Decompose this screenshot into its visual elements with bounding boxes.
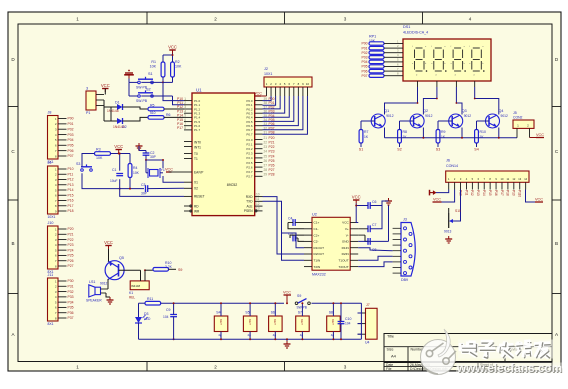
svg-text:EA/VP: EA/VP [194,170,203,174]
wire reset cluster [82,154,95,167]
svg-text:3: 3 [344,17,347,22]
svg-text:P1.7: P1.7 [194,128,201,132]
wire sw1 row [128,79,130,83]
svg-text:Q1: Q1 [384,109,389,113]
svg-text:File: File [386,367,392,371]
svg-text:P110: P110 [518,190,522,197]
svg-text:S10: S10 [455,209,461,213]
wire base R10 [477,120,490,122]
svg-text:S1: S1 [359,148,363,152]
resistor R3 [95,152,111,156]
svg-text:P07: P07 [361,74,367,78]
svg-text:P14: P14 [68,188,74,192]
led D3 [135,317,142,323]
wire osc [138,146,140,151]
connector J5 [513,120,534,128]
svg-text:8X1: 8X1 [48,322,54,326]
svg-text:P03: P03 [361,56,367,60]
resistor R10 base [475,130,479,144]
diode D2 [117,118,123,124]
svg-text:P20: P20 [269,136,275,140]
title block [384,334,552,371]
svg-text:P2.6: P2.6 [246,165,253,169]
transistor Q4 [486,114,500,128]
svg-text:P05: P05 [361,65,367,69]
key switch S5 [243,316,257,332]
svg-text:PSEN: PSEN [244,209,253,213]
svg-text:1: 1 [76,17,79,22]
switch S1 [138,81,141,84]
wire u2 gnd net [358,240,388,242]
svg-text:P2.5: P2.5 [246,161,253,165]
svg-text:P06: P06 [68,149,74,153]
svg-text:S9: S9 [297,294,301,298]
svg-text:Date: Date [386,363,393,367]
svg-text:C1-: C1- [314,227,319,231]
svg-text:P2.3: P2.3 [246,152,253,156]
wire key rail top [161,302,284,304]
vcc buzzer [105,245,111,247]
svg-text:4: 4 [469,17,472,22]
svg-text:10K: 10K [150,65,157,69]
wire base R8 [400,120,414,122]
svg-text:9012: 9012 [464,114,472,118]
svg-text:10X1: 10X1 [48,215,56,219]
wire sw rows to mcu [163,82,184,100]
vcc top [169,49,175,51]
svg-text:30P: 30P [150,155,157,159]
svg-text:3: 3 [86,87,88,91]
svg-text:Q3: Q3 [462,109,467,113]
svg-text:P18: P18 [506,190,510,196]
svg-text:Y1: Y1 [161,168,165,172]
svg-text:P01: P01 [361,46,367,50]
svg-text:2: 2 [214,365,217,370]
svg-text:MAX232: MAX232 [312,273,326,277]
svg-text:P21: P21 [269,141,275,145]
display bottom pins [417,81,419,87]
svg-text:P1.2: P1.2 [194,107,201,111]
svg-text:10: 10 [256,192,260,196]
svg-text:P2.1: P2.1 [246,142,253,146]
svg-text:2: 2 [214,17,217,22]
svg-text:29: 29 [264,173,268,177]
svg-text:P16: P16 [68,199,74,203]
svg-text:VCC: VCC [536,133,544,137]
transistor Q2 [410,114,424,128]
svg-text:R9: R9 [441,130,446,134]
svg-text:P21: P21 [68,232,74,236]
svg-text:R8: R8 [403,130,408,134]
svg-text:A4: A4 [391,354,397,359]
resistor R11 [145,301,161,305]
wire u2 to db9 [358,248,392,251]
ic U2 box [312,217,350,270]
svg-text:SW-PB: SW-PB [297,305,307,309]
wire display to transistors [385,87,418,115]
svg-text:S3: S3 [76,162,80,166]
svg-text:Q4: Q4 [499,109,504,113]
svg-text:10K: 10K [175,65,182,69]
display left pins [396,43,404,45]
svg-text:C2-: C2- [314,240,319,244]
svg-text:P25: P25 [68,254,74,258]
svg-text:S3: S3 [436,148,440,152]
svg-text:P0.3: P0.3 [246,112,253,116]
svg-text:RP1: RP1 [369,35,376,39]
svg-text:9013: 9013 [444,230,452,234]
mcu U1 right pins [255,100,263,102]
vcc J1 [102,88,108,90]
svg-text:C10: C10 [345,317,351,321]
svg-text:J3: J3 [403,218,407,222]
key switch S8 [327,316,341,332]
svg-text:1: 1 [184,97,186,101]
svg-text:S5: S5 [245,311,249,315]
svg-text:P04: P04 [68,138,74,142]
svg-text:P16: P16 [177,122,183,126]
svg-text:P1.3: P1.3 [194,112,201,116]
wire sw2 row [128,82,130,96]
svg-text:30P: 30P [141,192,148,196]
svg-text:U2: U2 [312,213,317,217]
connector J11 [48,278,59,321]
resistor R5 [148,107,164,111]
svg-text:V+: V+ [345,227,349,231]
svg-text:P15: P15 [488,190,492,196]
svg-text:104: 104 [345,322,351,326]
svg-text:5: 5 [184,114,186,118]
ground key row [286,341,288,344]
svg-text:VCC: VCC [165,168,173,172]
svg-text:S1: S1 [148,72,153,76]
svg-text:Title: Title [387,335,394,339]
svg-text:R11: R11 [147,297,153,301]
svg-text:ALE: ALE [246,204,252,208]
svg-text:D3: D3 [144,312,149,316]
svg-text:P12: P12 [68,178,74,182]
svg-text:P26: P26 [68,259,74,263]
svg-text:P10: P10 [68,167,74,171]
connector J8 [48,116,59,160]
diode D1 [117,104,123,110]
svg-text:9012: 9012 [501,114,509,118]
svg-text:R1: R1 [151,60,156,64]
svg-text:9012: 9012 [425,114,433,118]
svg-text:P22: P22 [269,145,275,149]
svg-text:P36: P36 [68,311,74,315]
svg-text:104: 104 [163,315,169,319]
resistor R10 [153,268,169,272]
svg-text:P2.7: P2.7 [246,175,253,179]
svg-text:4LEDDIS-CA_4: 4LEDDIS-CA_4 [403,31,428,35]
svg-text:WR: WR [194,209,200,213]
svg-text:10: 10 [306,82,310,86]
svg-text:U1: U1 [196,88,202,93]
svg-text:RD: RD [194,204,199,208]
mcu U1 left pins [184,100,192,102]
svg-text:89C52: 89C52 [227,183,238,187]
svg-text:R2IN: R2IN [342,252,349,256]
svg-text:P2.4: P2.4 [246,156,253,160]
svg-text:P17: P17 [68,204,74,208]
svg-text:S2: S2 [146,88,151,92]
svg-text:S9: S9 [178,268,182,272]
ground con14 [448,236,450,239]
svg-text:VCC: VCC [168,45,177,50]
svg-text:R1OUT: R1OUT [314,246,325,250]
switch S2 [138,95,141,98]
svg-text:26: 26 [264,159,268,163]
key switch S7 [296,316,310,332]
svg-text:9012: 9012 [100,282,108,286]
svg-text:8: 8 [184,126,186,130]
svg-text:P1.5: P1.5 [194,120,201,124]
svg-text:P13: P13 [177,109,183,113]
svg-text:P11: P11 [68,172,74,176]
cap C7 [367,225,369,232]
svg-text:IN4148: IN4148 [131,284,140,288]
svg-text:10uF: 10uF [110,179,118,183]
svg-text:R10: R10 [480,130,486,134]
wire q5 base [119,269,141,271]
svg-text:P27: P27 [269,168,275,172]
svg-text:P34: P34 [68,300,74,304]
svg-text:P02: P02 [361,51,367,55]
svg-text:P22: P22 [68,238,74,242]
svg-text:DB9: DB9 [401,278,408,282]
svg-text:J9: J9 [48,161,52,165]
svg-text:P01: P01 [269,101,275,105]
svg-text:P0.1: P0.1 [246,103,253,107]
svg-text:VCC: VCC [101,83,110,88]
wire diodes [103,100,105,107]
svg-text:J5: J5 [513,111,517,115]
svg-text:T1OUT: T1OUT [339,259,349,263]
svg-text:VCC: VCC [104,240,113,245]
svg-text:23: 23 [264,145,268,149]
transistor Q1 [371,114,385,128]
svg-text:RXD: RXD [246,195,253,199]
svg-text:R7: R7 [364,130,369,134]
svg-text:C7: C7 [372,223,377,227]
svg-text:25: 25 [264,154,268,158]
svg-text:P35: P35 [68,306,74,310]
ground osc [138,143,140,146]
switch S9 toggle [295,302,298,305]
connector J10 [48,226,59,269]
svg-text:24: 24 [264,150,268,154]
svg-text:P23: P23 [68,243,74,247]
svg-text:P14: P14 [482,190,486,196]
svg-text:P19: P19 [512,190,516,196]
cap C5 [292,235,294,242]
connector J1 [86,91,96,110]
key switch S6 [269,316,283,332]
svg-text:KEY: KEY [219,319,223,325]
svg-text:T1IN: T1IN [314,259,321,263]
svg-text:Q5: Q5 [119,256,124,260]
ground arrow [433,190,437,195]
svg-text:1N4148: 1N4148 [107,109,119,113]
svg-text:P16: P16 [494,190,498,196]
header J2 pins [266,87,268,96]
svg-text:9012: 9012 [386,114,394,118]
svg-text:510: 510 [150,111,156,115]
wire res to mcu [164,108,184,110]
svg-text:P27: P27 [68,264,74,268]
svg-text:P1.0: P1.0 [194,99,201,103]
cap C3 [145,185,147,192]
svg-text:Q2: Q2 [423,109,428,113]
connector J6 pins [448,182,450,189]
svg-text:KEY: KEY [331,319,335,325]
svg-text:B: B [11,241,14,246]
svg-text:C4: C4 [288,217,293,221]
svg-text:P26: P26 [269,164,275,168]
wire led [139,302,146,304]
svg-text:P13: P13 [68,183,74,187]
svg-text:C2: C2 [150,151,155,155]
svg-text:P24: P24 [68,248,74,252]
svg-text:P32: P32 [68,290,74,294]
svg-text:S2: S2 [397,148,401,152]
svg-text:21: 21 [264,136,268,140]
cap C8 [367,238,369,245]
cap C9 [170,314,177,316]
svg-text:www.elecfans.com: www.elecfans.com [456,361,562,375]
cap C6 [367,202,369,209]
svg-text:6: 6 [184,118,186,122]
svg-text:27: 27 [264,164,268,168]
svg-text:RESET: RESET [194,195,205,199]
connector J6 CON14 [446,171,529,182]
transistor Q6 small [448,208,450,213]
display DS1 box [403,39,491,81]
svg-text:J10: J10 [48,221,54,225]
svg-text:R3: R3 [96,148,101,152]
key switch S4 [214,316,228,332]
svg-text:P1.1: P1.1 [194,103,201,107]
svg-text:P17: P17 [177,126,183,130]
svg-text:S7: S7 [298,311,302,315]
svg-text:J11: J11 [48,273,54,277]
svg-text:C6: C6 [372,200,377,204]
svg-text:10K: 10K [133,171,140,175]
svg-text:GND: GND [342,240,350,244]
svg-text:P33: P33 [68,295,74,299]
wire con14 pin1 [436,190,449,193]
svg-text:J6: J6 [446,159,450,163]
cap C2 [143,152,150,154]
connector J9 [48,166,59,214]
svg-text:P2.7: P2.7 [246,170,253,174]
wire mcu txd rxd [263,197,305,254]
svg-text:SPEAKER: SPEAKER [86,299,102,303]
svg-text:R1IN: R1IN [342,246,349,250]
svg-text:3: 3 [184,105,186,109]
ground switches [128,70,130,72]
svg-text:P07: P07 [68,154,74,158]
svg-text:DS1: DS1 [403,25,410,29]
svg-text:T2OUT: T2OUT [339,265,349,269]
wire base R9 [438,120,452,122]
svg-text:V-: V- [346,233,349,237]
svg-text:K1: K1 [129,291,133,295]
svg-text:P01: P01 [68,122,74,126]
svg-text:P0.2: P0.2 [246,107,253,111]
wire base R7 [361,120,375,122]
svg-text:P03: P03 [68,133,74,137]
svg-text:12: 12 [256,202,260,206]
transistor Q5 [105,261,124,280]
svg-text:11: 11 [256,197,260,201]
svg-text:P18: P18 [68,209,74,213]
resistor R2 [171,62,175,77]
cap C10 [338,321,345,323]
svg-text:P15: P15 [177,118,183,122]
svg-text:S6: S6 [271,311,275,315]
svg-text:1: 1 [76,365,79,370]
svg-text:T1: T1 [194,157,198,161]
svg-text:P0.4: P0.4 [246,116,253,120]
resistor R9 base [436,130,440,144]
wire vcc to resistors [162,55,164,62]
svg-text:S8: S8 [329,311,333,315]
svg-text:S4: S4 [474,148,478,152]
svg-text:X2: X2 [194,186,198,190]
svg-text:P0.7: P0.7 [246,128,253,132]
svg-text:C1+: C1+ [314,221,320,225]
wire q5 [108,249,110,262]
svg-text:4: 4 [184,109,186,113]
svg-text:2.2K: 2.2K [165,265,173,269]
switch S3 reset [81,169,84,172]
svg-text:P31: P31 [68,284,74,288]
svg-text:INT0: INT0 [194,140,201,144]
resistor R6 [148,116,164,120]
svg-text:KEY: KEY [248,319,252,325]
ground u2 [388,198,390,201]
svg-text:VCC: VCC [254,91,262,95]
svg-text:P25: P25 [269,159,275,163]
svg-text:P00: P00 [361,42,367,46]
svg-text:J7: J7 [366,303,370,307]
speaker LS1 [95,287,101,294]
watermark cjk text [458,340,553,359]
svg-text:KEY: KEY [300,319,304,325]
connector J1 pins [96,94,104,96]
wire r10 out [169,268,177,270]
connector J3 DB9 [401,223,415,277]
resistor R7 base [359,130,363,144]
svg-text:P05: P05 [68,143,74,147]
svg-text:C2+: C2+ [314,233,320,237]
svg-text:38: 38 [264,101,268,105]
svg-text:R4: R4 [133,166,138,170]
svg-text:VCC: VCC [535,197,543,201]
svg-text:REL: REL [129,296,135,300]
svg-text:P0.0: P0.0 [246,99,253,103]
svg-text:SW-PB: SW-PB [136,99,148,103]
svg-text:KEY: KEY [273,319,277,325]
svg-text:3: 3 [344,365,347,370]
svg-text:P2.2: P2.2 [246,147,253,151]
wire u2 vcc [356,204,368,206]
svg-text:VCC: VCC [433,197,441,201]
header J2 box [264,77,312,87]
svg-text:P00: P00 [68,117,74,121]
